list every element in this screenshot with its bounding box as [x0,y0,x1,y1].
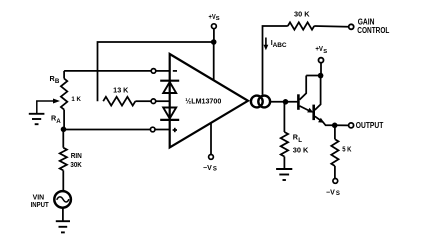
svg-text:CONTROL: CONTROL [357,26,389,35]
terminal: inverting input [151,69,156,74]
wire inverting input [64,70,151,72]
wiper arrow of RB [37,99,60,114]
wire +VS into op-amp top edge [213,42,215,81]
svg-text:S: S [323,49,327,55]
transistor Q2 [314,76,335,126]
svg-text:RIN: RIN [71,151,82,160]
label RA [51,114,61,125]
svg-text:A: A [56,118,61,125]
resistor 5K [331,125,352,178]
svg-text:13 K: 13 K [113,85,129,94]
wire OTA output to Q1 base [271,101,298,103]
svg-text:L: L [298,137,302,144]
svg-text:−V: −V [203,165,212,172]
minus input sign [173,70,177,72]
node: output dot [332,123,338,129]
svg-text:5 K: 5 K [342,145,352,154]
svg-text:B: B [55,78,60,85]
wire terminal to op-amp [155,129,170,131]
svg-text:S: S [216,16,220,22]
label IABC [271,40,287,49]
wire IABC vertical to 30K [263,26,288,95]
svg-text:30K: 30K [70,160,82,169]
terminal: diode bias input [151,99,156,104]
svg-text:+V: +V [315,46,323,53]
current arrow IABC [264,38,269,51]
svg-text:VIN: VIN [33,195,45,202]
svg-text:½LM13700: ½LM13700 [185,96,221,105]
node: collector rail dot [318,73,324,79]
source VIN [31,191,71,209]
resistor 13K [103,85,151,105]
wire collector rail [306,75,320,77]
node RA junction dot [61,127,67,133]
svg-text:ABC: ABC [273,42,288,49]
plus input sign [173,128,177,132]
resistor 30K (gain control) [288,9,349,29]
terminal GAIN CONTROL [349,17,390,35]
svg-text:30 K: 30 K [294,9,310,18]
terminal -VS (below op-amp) [203,155,217,173]
svg-text:−V: −V [326,190,335,197]
ground (RB wiper) [29,114,45,124]
ground (RL) [276,169,292,180]
op-amp U1 half LM13700 [170,54,248,148]
resistor RL 30K [281,102,310,169]
svg-text:INPUT: INPUT [31,202,50,209]
wire non-inverting input [64,129,151,131]
+VS terminal (top center) [209,14,220,42]
svg-text:1 K: 1 K [71,96,81,103]
terminal: non-inverting input [150,127,155,132]
wire terminal to op-amp [156,70,170,72]
wire to OUTPUT terminal [335,124,349,126]
wire top rail to +VS node [98,42,214,101]
node: RL junction dot [283,99,289,105]
ground (VIN) [56,221,70,232]
wire -VS from op-amp bottom [210,123,212,155]
potentiometer RB 1K [50,71,81,129]
wire VIN to ground [62,208,64,221]
resistor RIN 30K [60,129,83,190]
OTA output symbol (two circles) [251,96,270,108]
wire bias terminal to diode junction [156,100,170,102]
terminal -VS (bottom right) [326,179,340,197]
diode D1 (points up) [160,81,179,93]
svg-text:OUTPUT: OUTPUT [356,121,384,130]
svg-text:S: S [213,166,217,172]
terminal OUTPUT [349,121,384,130]
node: +VS junction dot [211,39,217,45]
transistor Q1 [298,76,313,113]
svg-text:S: S [336,191,340,197]
diode D2 (points down) [160,108,179,120]
+VS terminal (right) [315,46,327,75]
svg-text:30 K: 30 K [293,146,309,155]
